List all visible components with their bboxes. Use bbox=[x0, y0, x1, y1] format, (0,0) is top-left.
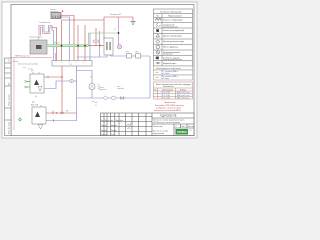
svg-text:ПР1: ПР1 bbox=[126, 52, 130, 54]
svg-text:Испытательный шлейф: Испытательный шлейф bbox=[18, 63, 38, 66]
svg-text:Листов: Листов bbox=[188, 126, 194, 128]
svg-text:Шаровой кран: Шаровой кран bbox=[163, 62, 176, 65]
svg-text:Клапан регулирующий: Клапан регулирующий bbox=[163, 29, 184, 32]
svg-text:Датчик давления воды: Датчик давления воды bbox=[163, 41, 185, 43]
svg-text:Датчик температуры: Датчик температуры bbox=[163, 36, 183, 38]
svg-text:Кабель: Кабель bbox=[180, 89, 186, 91]
svg-text:Инв. № подл.: Инв. № подл. bbox=[8, 121, 11, 134]
svg-text:Петров: Петров bbox=[111, 130, 117, 132]
svg-text:Провер.: Провер. bbox=[101, 130, 108, 132]
svg-text:шаровой: шаровой bbox=[117, 87, 124, 90]
svg-text:Наименование: Наименование bbox=[168, 15, 183, 17]
svg-text:-t2: -t2 bbox=[114, 28, 116, 31]
svg-text:Разраб.: Разраб. bbox=[101, 125, 108, 127]
svg-text:контрольн.: контрольн. bbox=[163, 54, 174, 56]
svg-text:П.ДУЧ2023-ТВ: П.ДУЧ2023-ТВ bbox=[160, 115, 177, 118]
svg-text:Подп. и дата: Подп. и дата bbox=[9, 93, 11, 106]
svg-text:3х1,5 мм²: 3х1,5 мм² bbox=[161, 72, 170, 75]
svg-text:Н1: Н1 bbox=[90, 77, 92, 79]
svg-text:обозначения: обозначения bbox=[163, 86, 174, 88]
svg-text:ПР2: ПР2 bbox=[135, 52, 139, 54]
svg-text:1.3: 1.3 bbox=[189, 130, 192, 132]
svg-text:Вз: Вз bbox=[9, 83, 11, 85]
svg-text:ВВГнг 3х2,5 ож: ВВГнг 3х2,5 ож bbox=[177, 98, 190, 100]
svg-text:подключений: подключений bbox=[153, 132, 164, 135]
svg-text:Кабель в гофротрубе: Кабель в гофротрубе bbox=[163, 19, 184, 22]
svg-text:Клеммная К2: Клеммная К2 bbox=[110, 14, 121, 16]
svg-text:ПР-3.1-ПВ: ПР-3.1-ПВ bbox=[161, 98, 170, 100]
svg-text:3х2,5 мм²: 3х2,5 мм² bbox=[161, 77, 170, 80]
svg-text:№ док.: № док. bbox=[108, 119, 114, 122]
svg-text:t4: t4 bbox=[95, 104, 96, 107]
svg-text:ЗИП Кситал 1.2: ЗИП Кситал 1.2 bbox=[15, 55, 30, 57]
svg-text:ПОЛЮС: ПОЛЮС bbox=[177, 130, 187, 134]
svg-text:АКБ 12В: АКБ 12В bbox=[31, 103, 39, 106]
svg-text:электронной панели: электронной панели bbox=[163, 58, 182, 61]
svg-text:Обозначения в этой схеме: Обозначения в этой схеме bbox=[156, 67, 182, 70]
svg-text:Дата: Дата bbox=[120, 120, 124, 122]
svg-text:Примечания: Примечания bbox=[164, 102, 176, 104]
svg-text:Течеискатель: Течеискатель bbox=[39, 22, 50, 24]
svg-text:Обозначение: Обозначение bbox=[162, 89, 173, 91]
svg-text:ПЛК (Кситал) и насосной группы: ПЛК (Кситал) и насосной группы bbox=[153, 121, 181, 124]
svg-text:монтаж вести кабелем ВВГнг: монтаж вести кабелем ВВГнг bbox=[154, 110, 181, 112]
svg-text:Н.контр.: Н.контр. bbox=[101, 134, 108, 136]
svg-text:силовая панель: силовая панель bbox=[29, 37, 42, 39]
svg-text:подводка: подводка bbox=[99, 89, 106, 91]
svg-text:Подп: Подп bbox=[115, 120, 119, 122]
svg-text:Насос циркуляц.: Насос циркуляц. bbox=[163, 46, 179, 48]
svg-text:Испыт.: Испыт. bbox=[13, 61, 19, 63]
svg-text:ПР-1.1-ПВ: ПР-1.1-ПВ bbox=[161, 92, 170, 94]
svg-text:96 вых: 96 вых bbox=[54, 43, 60, 45]
svg-text:ВВГнг 3х1,5 ож: ВВГнг 3х1,5 ож bbox=[177, 92, 190, 94]
svg-text:№: № bbox=[154, 88, 156, 91]
svg-text:Жилой дом: Жилой дом bbox=[153, 125, 163, 128]
svg-text:автоматическое: автоматическое bbox=[163, 26, 179, 28]
svg-text:Иванов: Иванов bbox=[111, 125, 117, 127]
svg-text:Сп: Сп bbox=[9, 59, 11, 62]
svg-text:Лист: Лист bbox=[182, 126, 186, 128]
svg-text:датчиками: датчиками bbox=[50, 11, 58, 13]
svg-text:Условные обозначения: Условные обозначения bbox=[160, 11, 182, 13]
svg-text:X1: X1 bbox=[70, 64, 72, 66]
svg-text:Утв.: Утв. bbox=[111, 134, 115, 136]
svg-text:пр: пр bbox=[52, 111, 54, 113]
